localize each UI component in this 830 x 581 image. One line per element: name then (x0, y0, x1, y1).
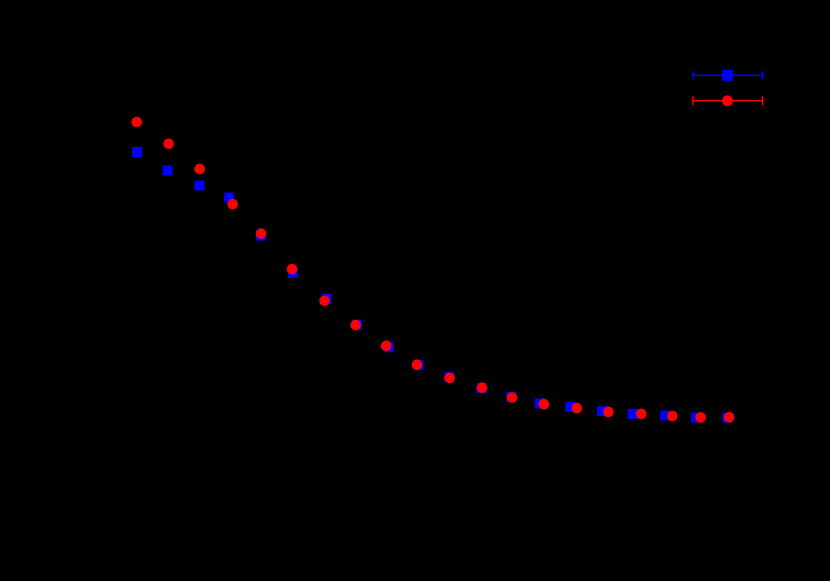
data series: blue squares (132, 147, 732, 423)
data series: red circles (131, 117, 734, 423)
legend entry: red error bar with circle marker (693, 96, 763, 105)
legend entry: blue error bar with square marker (693, 71, 763, 79)
